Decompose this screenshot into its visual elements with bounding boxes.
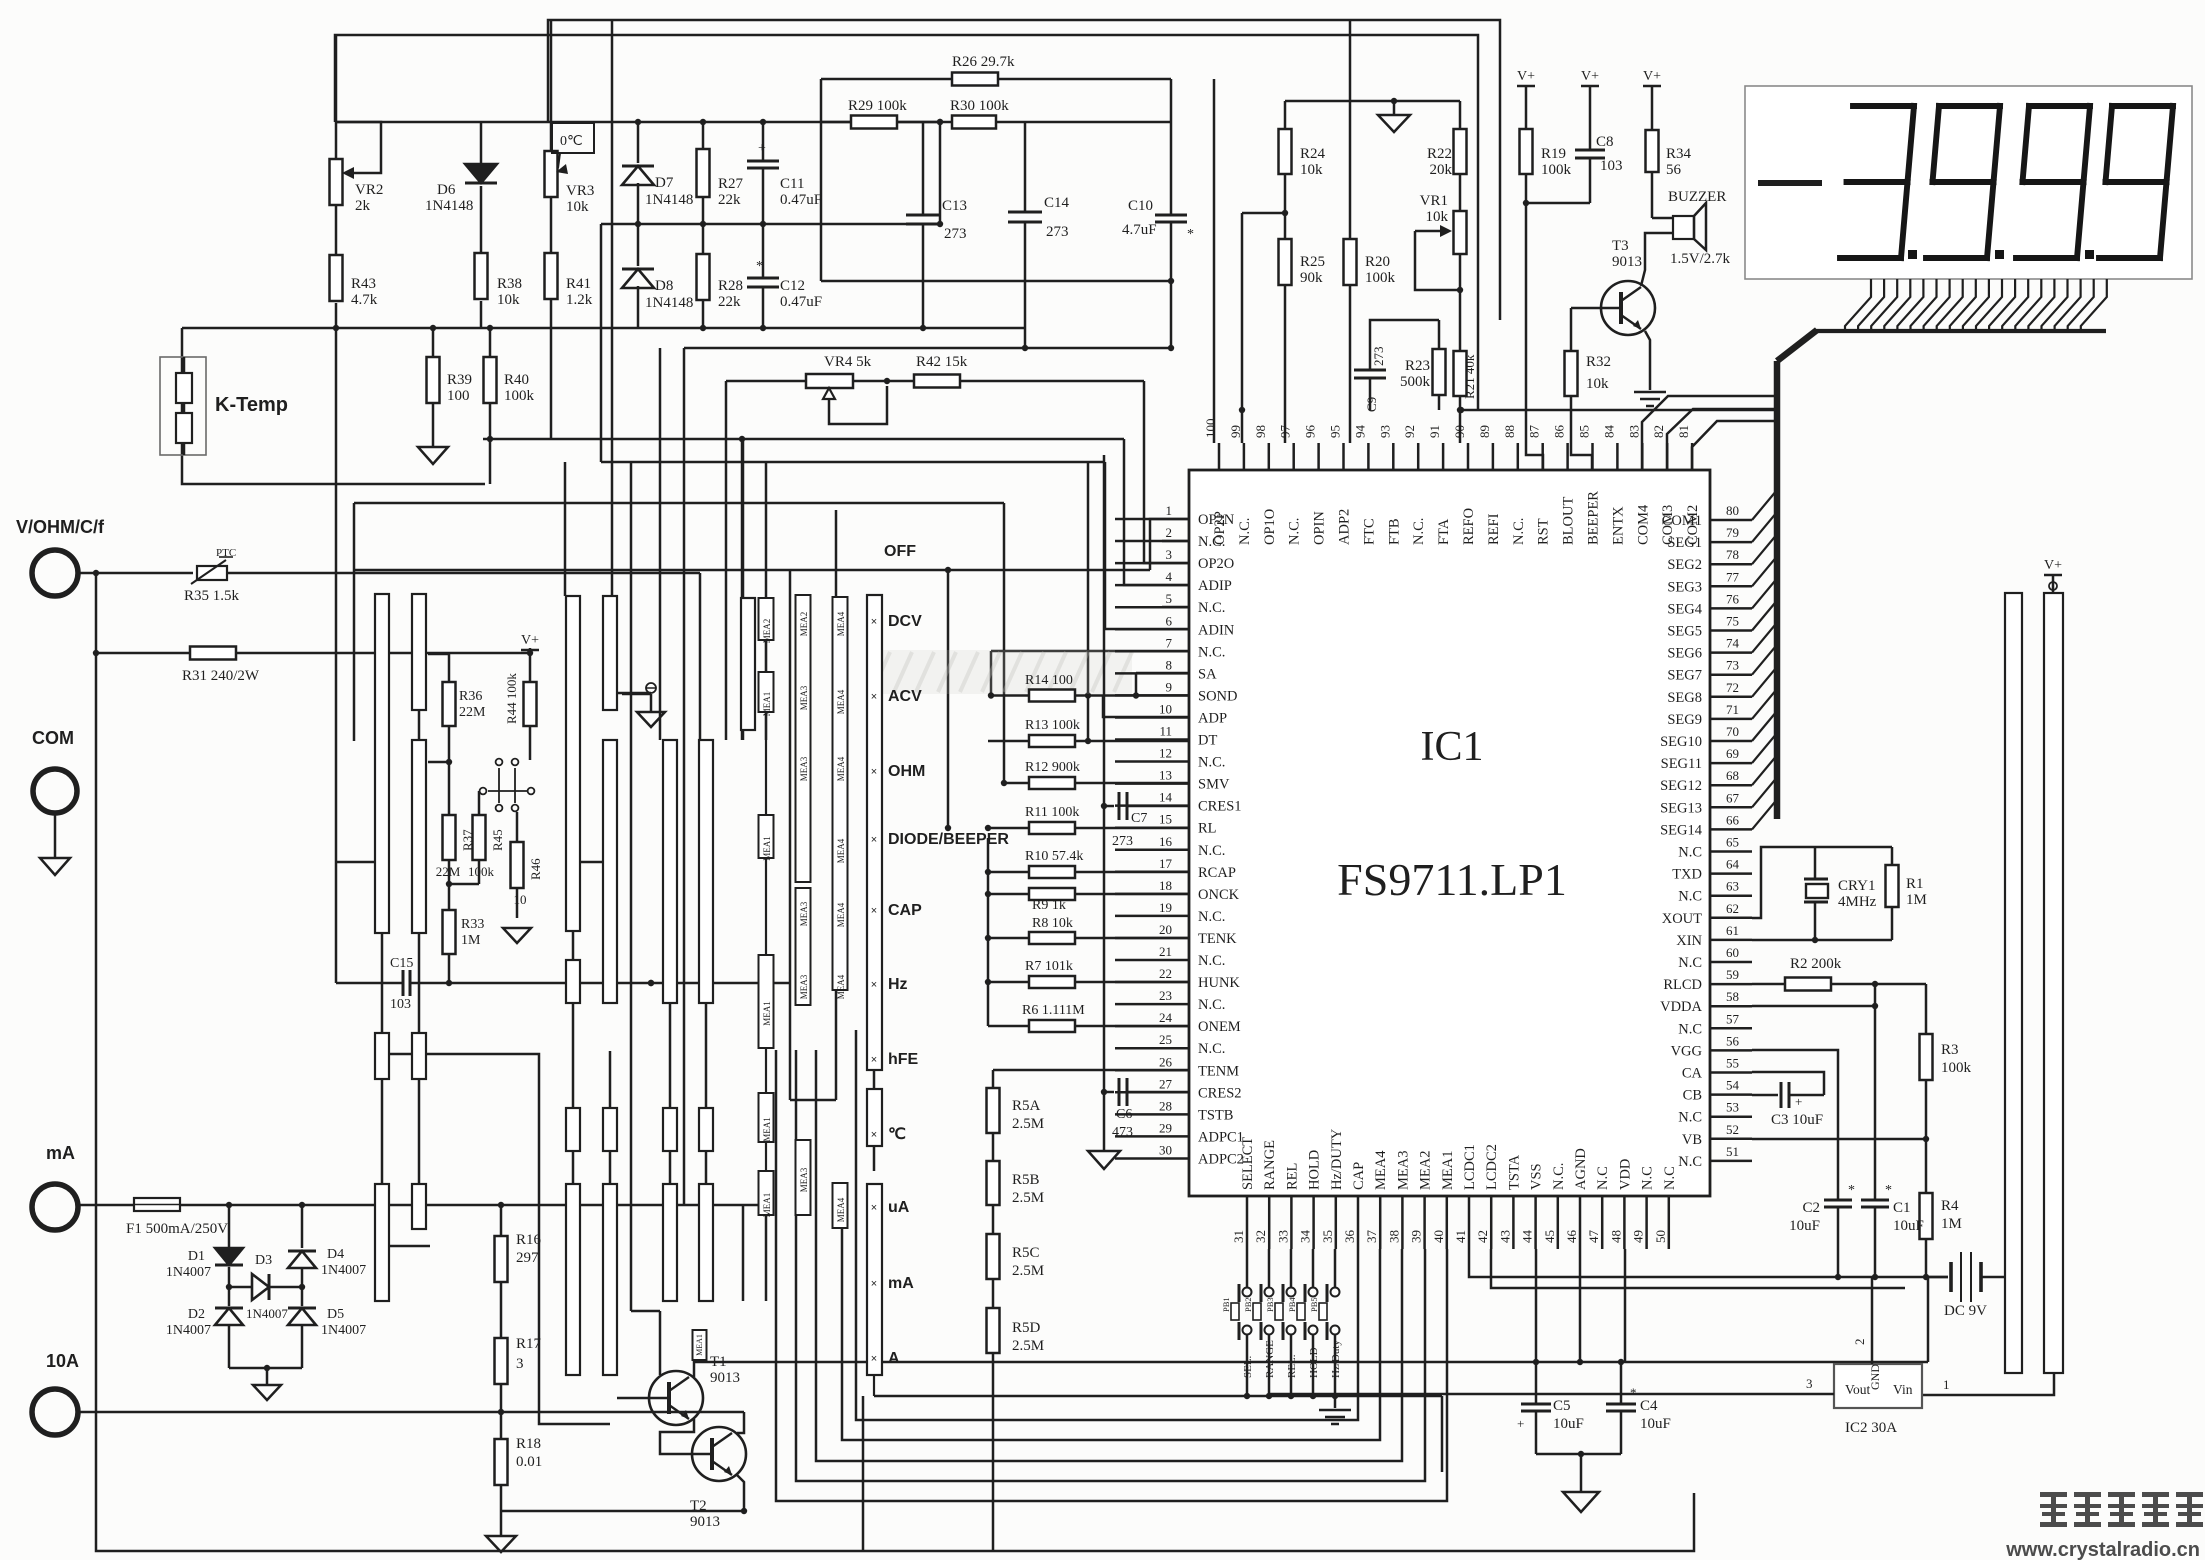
svg-text:41: 41 (1453, 1230, 1468, 1243)
svg-text:SEL.: SEL. (1242, 1355, 1254, 1378)
svg-text:1N4148: 1N4148 (425, 198, 473, 214)
watermark crystalradio logo (2040, 1492, 2203, 1527)
svg-text:273: 273 (1371, 347, 1386, 367)
wire LCD bar right bottom to IC2 (1922, 1373, 2054, 1395)
svg-text:26: 26 (1159, 1054, 1173, 1069)
pin 46 AGND (1579, 1196, 1582, 1249)
svg-text:R14 100: R14 100 (1025, 673, 1073, 688)
svg-text:R40: R40 (504, 372, 529, 388)
svg-text:34: 34 (1298, 1230, 1313, 1244)
svg-text:×: × (871, 616, 877, 628)
svg-text:9013: 9013 (1612, 254, 1642, 270)
wire vertical x651 to gnd tap (650, 694, 653, 712)
svg-text:×: × (871, 1202, 877, 1214)
svg-text:32: 32 (1253, 1230, 1268, 1243)
transistor T1 (649, 1371, 703, 1425)
svg-text:N.C: N.C (1595, 1166, 1611, 1190)
wire cluster bottom rail y328 (638, 327, 1025, 330)
pin 65 N.C (1710, 850, 1752, 853)
pin 41 LCDC1 (1468, 1196, 1471, 1249)
resistor R43 (330, 255, 343, 301)
wire pin4 feed (1124, 439, 1189, 585)
svg-text:1.5V/2.7k: 1.5V/2.7k (1670, 251, 1731, 267)
svg-text:57: 57 (1726, 1011, 1740, 1026)
pin 2 N.C. (1115, 540, 1189, 543)
svg-text:V+: V+ (1581, 69, 1599, 84)
wire rail y101 (1285, 100, 1460, 103)
svg-text:82: 82 (1651, 425, 1666, 438)
pin 56 VGG (1710, 1049, 1752, 1052)
svg-text:COM: COM (32, 728, 74, 748)
svg-text:69: 69 (1726, 746, 1739, 761)
svg-text:REL: REL (1284, 1163, 1300, 1190)
svg-text:R39: R39 (447, 372, 472, 388)
svg-text:94: 94 (1352, 425, 1367, 439)
svg-text:N.C: N.C (1662, 1166, 1678, 1190)
pin 17 RCAP (1115, 871, 1189, 874)
diode D5 (288, 1307, 316, 1310)
pin 16 N.C. (1115, 849, 1189, 852)
MEA switch bar column x803 (796, 595, 811, 882)
svg-text:68: 68 (1726, 768, 1739, 783)
svg-text:10uF: 10uF (1553, 1416, 1584, 1432)
svg-text:FS9711.LP1: FS9711.LP1 (1337, 854, 1567, 905)
svg-text:20: 20 (1159, 922, 1172, 937)
svg-text:80: 80 (1726, 503, 1739, 518)
svg-text:473: 473 (1112, 1125, 1133, 1140)
svg-text:OHM: OHM (888, 763, 925, 780)
svg-text:MEA4: MEA4 (836, 838, 846, 863)
pin 70 SEG10 (1710, 740, 1752, 743)
svg-text:72: 72 (1726, 680, 1739, 695)
resistor R46 (511, 842, 524, 888)
svg-text:N.C.: N.C. (1551, 1163, 1567, 1190)
svg-text:48: 48 (1608, 1230, 1623, 1243)
svg-text:D1: D1 (188, 1249, 205, 1264)
pin 36 CAP (1357, 1196, 1360, 1249)
wire LCDC routes (1469, 1249, 1838, 1277)
pin 9 SOND (1115, 694, 1189, 697)
ground below R46 (503, 928, 531, 943)
pin 50 N.C (1668, 1196, 1671, 1249)
resistor R45 (473, 815, 486, 860)
svg-text:R30 100k: R30 100k (950, 98, 1009, 114)
svg-text:C11: C11 (780, 176, 804, 192)
svg-text:MEA2: MEA2 (799, 612, 809, 637)
resistor R20 (1344, 239, 1357, 285)
wire rail y462 (605, 461, 1105, 464)
capacitor C7 (1104, 805, 1114, 808)
svg-text:100: 100 (447, 388, 470, 404)
svg-text:SEG9: SEG9 (1667, 712, 1702, 728)
svg-text:56: 56 (1726, 1033, 1740, 1048)
svg-text:R5B: R5B (1012, 1172, 1040, 1188)
svg-text:8: 8 (1166, 657, 1173, 672)
wire mid rail y224 (601, 223, 638, 226)
wire bridge bottom (229, 1367, 302, 1370)
svg-text:1: 1 (1166, 503, 1173, 518)
svg-text:100k: 100k (1941, 1060, 1972, 1076)
display digit 9 (tens) (2029, 103, 2090, 109)
svg-text:*: * (1885, 1183, 1892, 1198)
resistor R40 (484, 357, 497, 403)
svg-text:BUZZER: BUZZER (1668, 189, 1726, 205)
pin 28 TSTB (1115, 1113, 1189, 1116)
resistor R10 (1029, 866, 1075, 878)
pin 10 ADP (1115, 716, 1189, 719)
svg-text:R46: R46 (528, 858, 543, 880)
pin 52 VB (1710, 1138, 1752, 1141)
svg-text:SELECT: SELECT (1240, 1137, 1256, 1190)
svg-text:VDD: VDD (1617, 1159, 1633, 1190)
svg-text:R13 100k: R13 100k (1025, 718, 1080, 733)
svg-text:51: 51 (1726, 1144, 1739, 1159)
wire pin6 feed (1105, 462, 1189, 629)
capacitor C3 (1752, 1072, 1824, 1095)
pin 82 COM3 (1666, 443, 1669, 470)
svg-text:×: × (871, 766, 877, 778)
wire box verticals x821 x940 (820, 79, 823, 281)
wire vertical x1875 (1874, 984, 1877, 1200)
diode D4 (288, 1250, 316, 1253)
svg-text:R8 10k: R8 10k (1032, 916, 1073, 931)
svg-text:N.C: N.C (1640, 1166, 1656, 1190)
resistor R5C (987, 1234, 1000, 1279)
svg-text:R34: R34 (1666, 146, 1692, 162)
svg-text:SEG11: SEG11 (1661, 756, 1702, 772)
wire common bar bottom to border (862, 1396, 865, 1551)
ground below R18 (486, 1536, 516, 1552)
resistor R23 (1433, 349, 1446, 395)
svg-text:K-Temp: K-Temp (215, 394, 288, 416)
svg-text:63: 63 (1726, 879, 1739, 894)
svg-text:90: 90 (1452, 425, 1467, 438)
wire rail y503 (354, 502, 1004, 505)
pin 89 REFI (1492, 443, 1495, 470)
svg-text:MEA1: MEA1 (762, 1193, 772, 1218)
svg-text:N.C.: N.C. (1198, 843, 1225, 859)
svg-text:R24: R24 (1300, 146, 1326, 162)
svg-text:MEA1: MEA1 (762, 1117, 772, 1142)
svg-text:N.C.: N.C. (1198, 755, 1225, 771)
resistor R17 (495, 1338, 508, 1384)
MEA switch bar chain x766 (759, 598, 774, 640)
resistor R27 (697, 149, 710, 197)
resistor R38 (475, 253, 488, 299)
svg-text:30: 30 (1159, 1142, 1172, 1157)
display decimal point 3 (2085, 250, 2094, 259)
wire R46 column (516, 812, 519, 842)
svg-text:1M: 1M (1941, 1216, 1962, 1232)
svg-text:7: 7 (1166, 635, 1173, 650)
svg-text:84: 84 (1601, 425, 1616, 439)
svg-text:20k: 20k (1430, 162, 1453, 178)
wire buttons common rail (874, 1395, 1442, 1398)
svg-text:R11 100k: R11 100k (1025, 805, 1079, 820)
svg-text:HOLD: HOLD (1307, 1150, 1323, 1190)
svg-text:N.C.: N.C. (1198, 997, 1225, 1013)
pin 81 COM2 (1691, 443, 1694, 470)
svg-text:D6: D6 (437, 182, 456, 198)
svg-text:LCDC2: LCDC2 (1484, 1144, 1500, 1190)
svg-text:N.C.: N.C. (1198, 909, 1225, 925)
capacitor C8 (1575, 149, 1605, 152)
svg-text:COM1: COM1 (1662, 513, 1702, 529)
svg-text:R17: R17 (516, 1336, 542, 1352)
svg-text:N.C.: N.C. (1198, 600, 1225, 616)
resistor R12 (1029, 777, 1075, 789)
svg-text:A: A (888, 1350, 900, 1367)
pin 39 MEA2 (1423, 1196, 1426, 1249)
pin 43 TSTA (1512, 1196, 1515, 1249)
pin 25 N.C. (1115, 1047, 1189, 1050)
svg-text:2: 2 (1852, 1339, 1867, 1346)
svg-text:18: 18 (1159, 878, 1172, 893)
svg-text:×: × (871, 834, 877, 846)
svg-text:C6: C6 (1116, 1107, 1132, 1122)
wire R19 column (1525, 174, 1528, 203)
capacitor C9 (1354, 369, 1386, 372)
svg-text:SEG12: SEG12 (1660, 778, 1702, 794)
svg-text:10uF: 10uF (1640, 1416, 1671, 1432)
svg-text:103: 103 (1600, 158, 1623, 174)
wire D6/R38 column (480, 122, 483, 166)
wire vertical VR2/R43 column (335, 35, 338, 159)
svg-text:R9 1k: R9 1k (1032, 898, 1066, 913)
wire R22/VR1 column (1459, 101, 1462, 129)
pin 14 CRES1 (1115, 804, 1189, 807)
svg-text:74: 74 (1726, 636, 1740, 651)
wire COM2-4 bends (1692, 421, 1777, 470)
display digit 9 (units) (2112, 103, 2173, 109)
capacitor C6 (1104, 1091, 1114, 1094)
svg-text:25: 25 (1159, 1032, 1172, 1047)
wire VR4 R42 rail y381 (726, 380, 806, 383)
pin 45 N.C. (1557, 1196, 1560, 1249)
wire R32 column (1570, 308, 1573, 351)
pin 66 SEG14 (1710, 828, 1752, 831)
svg-text:MEA3: MEA3 (1395, 1151, 1411, 1190)
capacitor C1 (1861, 1199, 1889, 1202)
wire IC2 pin3 (1268, 1393, 1834, 1396)
svg-text:65: 65 (1726, 835, 1739, 850)
resistor R13 (1029, 735, 1075, 747)
pin 38 MEA3 (1401, 1196, 1404, 1249)
MEA bar near T1 (693, 1330, 707, 1360)
svg-text:RL: RL (1198, 821, 1217, 837)
wire XIN rail (1752, 939, 1892, 942)
svg-text:R5A: R5A (1012, 1098, 1041, 1114)
svg-text:×: × (871, 905, 877, 917)
svg-text:C13: C13 (942, 198, 967, 214)
pin 53 N.C (1710, 1115, 1752, 1118)
wire OFF drop to DIODE row (947, 570, 950, 828)
svg-text:56: 56 (1666, 162, 1682, 178)
svg-text:DCV: DCV (888, 613, 922, 630)
resistor R21 (1454, 351, 1467, 396)
resistor R42 (914, 375, 960, 388)
svg-text:VB: VB (1682, 1132, 1702, 1148)
pin 71 SEG9 (1710, 718, 1752, 721)
wire R29 R30 rail y122 (820, 121, 851, 124)
svg-text:10uF: 10uF (1893, 1218, 1924, 1234)
ground below R39 (418, 447, 448, 464)
pin 62 XOUT (1710, 917, 1752, 920)
ground top mid (1393, 101, 1396, 115)
svg-text:MEA1: MEA1 (695, 1334, 704, 1356)
svg-text:28: 28 (1159, 1098, 1172, 1113)
resistor R36 (443, 682, 456, 726)
display pin fan (1845, 279, 1871, 331)
pin 58 VDDA (1710, 1005, 1752, 1008)
wire T1 collector to rail (694, 1362, 1928, 1377)
pin 87 RST (1541, 443, 1544, 470)
svg-text:×: × (871, 1353, 877, 1365)
svg-text:43: 43 (1497, 1230, 1512, 1243)
wire C14 column (1024, 122, 1027, 212)
svg-text:C8: C8 (1596, 134, 1614, 150)
svg-text:IC1: IC1 (1421, 724, 1484, 770)
pin 95 ADP2 (1342, 443, 1345, 470)
wire SEG bundle top run (1815, 329, 2106, 333)
svg-text:ONCK: ONCK (1198, 887, 1240, 903)
pin 92 N.C. (1417, 443, 1420, 470)
svg-text:R44 100k: R44 100k (504, 673, 519, 724)
resistor R41 (545, 253, 558, 299)
svg-text:N.C: N.C (1678, 1021, 1702, 1037)
pin 7 N.C. (1115, 650, 1189, 653)
svg-text:SEG7: SEG7 (1667, 668, 1702, 684)
svg-text:MEA3: MEA3 (799, 756, 809, 781)
pin 35 Hz/DUTY (1335, 1196, 1338, 1249)
diode D2 (215, 1307, 243, 1310)
pin 23 N.C. (1115, 1003, 1189, 1006)
wire SEG diagonals (1752, 799, 1777, 829)
capacitor C12 (747, 277, 779, 280)
svg-text:×: × (871, 1278, 877, 1290)
svg-text:R23: R23 (1405, 358, 1430, 374)
svg-text:R2 200k: R2 200k (1790, 956, 1842, 972)
svg-text:86: 86 (1552, 425, 1567, 439)
svg-text:V+: V+ (1643, 69, 1661, 84)
svg-text:R27: R27 (718, 176, 744, 192)
svg-text:PB5: PB5 (1309, 1297, 1319, 1312)
wire top border outer (335, 35, 1478, 410)
mode selector common bar (867, 595, 882, 1070)
svg-text:SEG1: SEG1 (1667, 535, 1702, 551)
wire R45 column (478, 860, 481, 884)
wire vertical x354 (353, 503, 356, 741)
pin 73 SEG7 (1710, 673, 1752, 676)
wire T1 emitter to T2 base (660, 1419, 694, 1454)
svg-text:85: 85 (1577, 425, 1592, 438)
wire pin3 feed (1144, 381, 1189, 563)
svg-text:52: 52 (1726, 1122, 1739, 1137)
svg-text:Hz/Duty: Hz/Duty (1330, 1340, 1342, 1378)
svg-text:HUNK: HUNK (1198, 975, 1240, 991)
svg-text:1N4007: 1N4007 (321, 1263, 366, 1278)
svg-text:VSS: VSS (1529, 1163, 1545, 1190)
resistor R30 (952, 116, 996, 129)
svg-text:54: 54 (1726, 1078, 1740, 1093)
pin 72 SEG8 (1710, 696, 1752, 699)
svg-text:42: 42 (1475, 1230, 1490, 1243)
potentiometer VR3 (545, 151, 558, 197)
svg-text:21: 21 (1159, 944, 1172, 959)
pin 5 N.C. (1115, 606, 1189, 609)
resistor R28 (697, 254, 710, 300)
svg-text:R5C: R5C (1012, 1245, 1040, 1261)
svg-text:1N4148: 1N4148 (645, 192, 693, 208)
capacitor C13 (906, 214, 940, 217)
pin 6 ADIN (1115, 628, 1189, 631)
pin 13 SMV (1115, 782, 1189, 785)
resistor R1 (1891, 847, 1894, 865)
svg-text:+: + (758, 141, 766, 156)
svg-text:50: 50 (1653, 1230, 1668, 1243)
svg-text:R33: R33 (461, 917, 484, 932)
pin 74 SEG6 (1710, 651, 1752, 654)
wire D7/D8 column (637, 122, 640, 163)
svg-text:SEG5: SEG5 (1667, 624, 1702, 640)
svg-text:91: 91 (1427, 425, 1442, 438)
pin 40 MEA1 (1446, 1196, 1449, 1249)
wire R5 ladder (992, 1070, 995, 1088)
pin 83 COM4 (1641, 443, 1644, 470)
svg-text:3: 3 (1166, 547, 1173, 562)
wire T3 collector to buzzer (1641, 233, 1673, 286)
svg-text:CRY1: CRY1 (1838, 878, 1876, 894)
svg-text:3: 3 (1806, 1376, 1813, 1391)
pin 99 N.C. (1243, 443, 1246, 470)
wire rail x1928 drop (1927, 1277, 1930, 1362)
transistor T3 (1601, 281, 1655, 335)
svg-text:0.47uF: 0.47uF (780, 294, 822, 310)
svg-text:4: 4 (1166, 569, 1173, 584)
pin 8 SA (1115, 672, 1189, 675)
svg-text:R6 1.111M: R6 1.111M (1022, 1003, 1085, 1018)
svg-text:100k: 100k (1541, 162, 1572, 178)
svg-text:SMV: SMV (1198, 777, 1230, 793)
svg-text:1N4007: 1N4007 (246, 1306, 288, 1321)
svg-text:75: 75 (1726, 614, 1739, 629)
svg-text:PB1: PB1 (1221, 1297, 1231, 1312)
pin 32 RANGE (1268, 1196, 1271, 1249)
wire C13 column (922, 122, 925, 215)
svg-text:COM4: COM4 (1635, 504, 1651, 545)
wire R44 to socket (529, 726, 532, 760)
svg-text:×: × (871, 1054, 877, 1066)
LCD display frame (1745, 86, 2192, 279)
svg-text:XIN: XIN (1676, 933, 1702, 949)
wire R23 column (1438, 320, 1441, 349)
wire T2 collector (737, 1412, 744, 1433)
wire OFF rail y570 (354, 569, 1150, 572)
svg-text:ONEM: ONEM (1198, 1019, 1241, 1035)
pin 30 ADPC2 (1115, 1157, 1189, 1160)
wire R27 C11 rails (638, 121, 940, 124)
pin 93 FTB (1392, 443, 1395, 470)
wire SEG bundle vertical (1774, 361, 1781, 819)
resistor R33 (443, 910, 456, 954)
ground below bridge (253, 1385, 281, 1400)
svg-text:100k: 100k (1365, 270, 1396, 286)
display digit 3 (1853, 103, 1914, 109)
wire switch web (564, 462, 567, 596)
svg-text:CA: CA (1682, 1066, 1703, 1082)
svg-text:RLCD: RLCD (1663, 977, 1702, 993)
pushbutton HzDUTY (1243, 1288, 1252, 1297)
